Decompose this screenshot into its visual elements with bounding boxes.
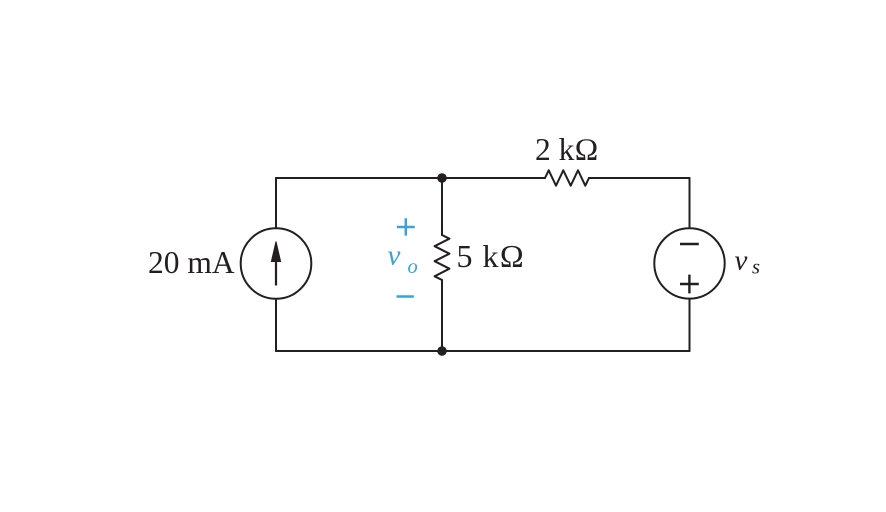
svg-text:20 mA: 20 mA xyxy=(148,245,235,280)
svg-text:v: v xyxy=(735,245,748,277)
label vo minus polarity xyxy=(397,295,414,298)
node B bottom junction dot xyxy=(437,346,447,356)
voltage source Vs circle xyxy=(654,228,724,298)
svg-text:v: v xyxy=(388,240,401,272)
current source I1 circle xyxy=(241,228,312,299)
wire right vertical lower xyxy=(689,299,691,351)
wire left vertical lower xyxy=(275,299,277,351)
voltage source Vs minus sign xyxy=(680,243,699,245)
resistor R1 2k zigzag xyxy=(545,170,589,185)
wire right vertical upper xyxy=(689,178,691,228)
wire middle vertical upper xyxy=(441,178,443,235)
wire top right segment xyxy=(589,177,690,179)
resistor R2 5k zigzag xyxy=(435,235,450,280)
label vo plus polarity xyxy=(397,218,415,235)
current source I1 arrow xyxy=(271,242,280,286)
svg-text:5 kΩ: 5 kΩ xyxy=(457,238,526,274)
wire top left segment xyxy=(276,177,545,179)
svg-text:s: s xyxy=(752,257,760,279)
wire middle vertical lower xyxy=(441,280,443,351)
svg-text:2 kΩ: 2 kΩ xyxy=(535,132,599,167)
wire left vertical upper xyxy=(275,178,277,228)
wire bottom xyxy=(276,350,690,352)
voltage source Vs plus sign xyxy=(680,275,699,294)
svg-text:o: o xyxy=(408,256,418,278)
node A top junction dot xyxy=(437,173,447,183)
